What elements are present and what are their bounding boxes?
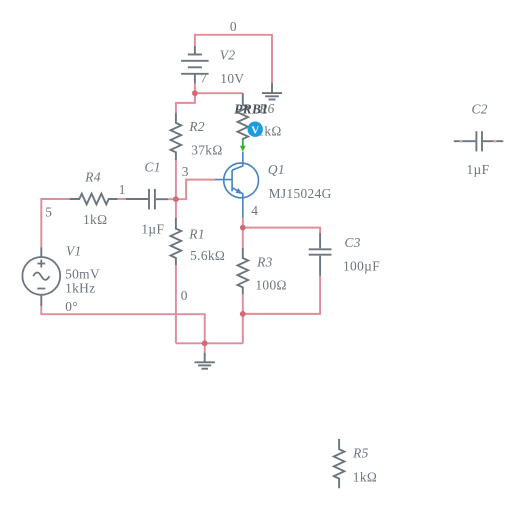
svg-text:R4: R4 bbox=[84, 169, 101, 184]
svg-text:1µF: 1µF bbox=[141, 222, 164, 237]
svg-text:V: V bbox=[251, 124, 259, 136]
svg-text:5.6kΩ: 5.6kΩ bbox=[190, 248, 225, 263]
svg-text:5: 5 bbox=[45, 205, 52, 220]
svg-text:V2: V2 bbox=[220, 48, 236, 63]
svg-text:1: 1 bbox=[119, 182, 126, 197]
svg-text:1kΩ: 1kΩ bbox=[83, 212, 107, 227]
svg-text:7: 7 bbox=[200, 71, 207, 86]
svg-text:0°: 0° bbox=[65, 299, 78, 314]
svg-text:1kΩ: 1kΩ bbox=[353, 470, 377, 485]
svg-text:R1: R1 bbox=[188, 226, 205, 241]
svg-text:Q1: Q1 bbox=[268, 162, 285, 177]
svg-text:PRB1: PRB1 bbox=[234, 102, 268, 117]
svg-text:1kHz: 1kHz bbox=[65, 280, 95, 295]
svg-text:MJ15024G: MJ15024G bbox=[269, 186, 332, 201]
svg-text:100Ω: 100Ω bbox=[255, 277, 286, 292]
svg-text:10V: 10V bbox=[220, 71, 244, 86]
svg-text:3: 3 bbox=[182, 164, 189, 179]
svg-text:0: 0 bbox=[181, 288, 188, 303]
svg-text:37kΩ: 37kΩ bbox=[191, 143, 222, 158]
svg-text:50mV: 50mV bbox=[65, 267, 100, 282]
svg-text:1µF: 1µF bbox=[467, 162, 490, 177]
svg-text:V1: V1 bbox=[66, 243, 82, 258]
svg-text:C2: C2 bbox=[472, 101, 488, 116]
svg-text:4: 4 bbox=[251, 203, 258, 218]
svg-text:R3: R3 bbox=[256, 255, 273, 270]
svg-text:100µF: 100µF bbox=[343, 258, 380, 273]
svg-text:R5: R5 bbox=[352, 445, 369, 460]
svg-text:0: 0 bbox=[230, 19, 237, 34]
svg-text:R2: R2 bbox=[188, 119, 205, 134]
svg-text:C1: C1 bbox=[145, 159, 161, 174]
svg-text:C3: C3 bbox=[345, 235, 361, 250]
